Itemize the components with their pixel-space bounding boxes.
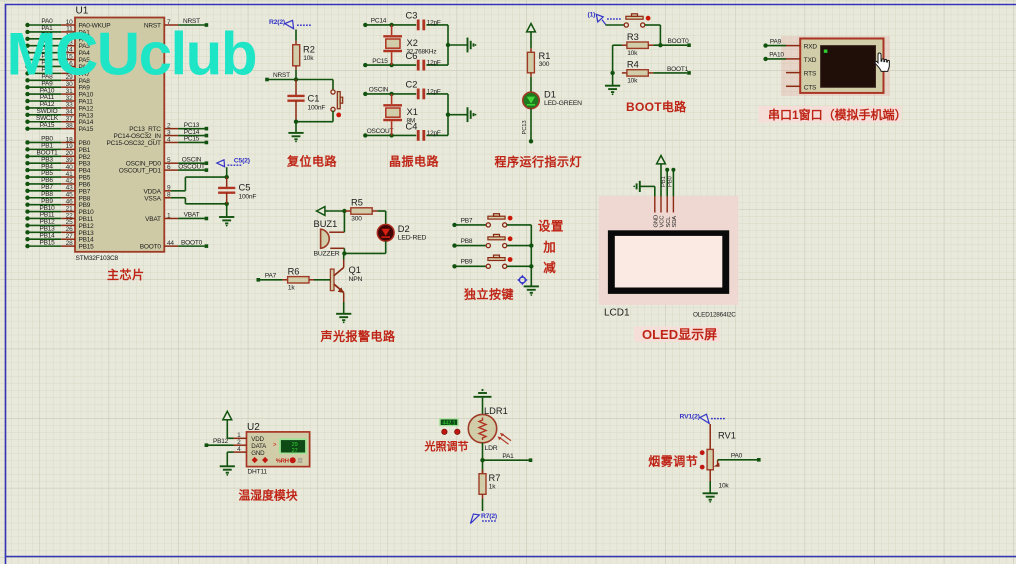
svg-text:12pF: 12pF: [427, 130, 441, 137]
junction OSCIN/crystal: [389, 92, 393, 96]
ground (DHT11): [220, 466, 235, 472]
wire LDR to junction: [482, 443, 484, 460]
svg-text:27: 27: [292, 448, 298, 454]
flag R2(2): [269, 19, 311, 29]
junction C5 top: [225, 175, 229, 179]
svg-text:PB8: PB8: [461, 238, 473, 245]
wire PB6 pin 42 (U1 left): [25, 177, 90, 188]
svg-text:独立按键: 独立按键: [463, 286, 514, 301]
svg-text:NRST: NRST: [273, 72, 290, 79]
ground (keys): [524, 286, 539, 292]
wire BUZ1 top to R5 junction: [343, 211, 345, 232]
wire BUZ1 bottom to junction: [343, 248, 345, 253]
svg-text:减: 减: [543, 260, 556, 275]
DHT11 module U2: [247, 422, 310, 475]
buzzer BUZ1: [314, 219, 345, 258]
wire key PB7 to common: [507, 224, 532, 226]
svg-text:38: 38: [66, 122, 73, 129]
wire R1 to D1: [530, 77, 532, 93]
potentiometer RV1 10k: [700, 431, 736, 490]
wire PA10 to TXD: [763, 52, 800, 61]
wire PC14: [363, 18, 448, 27]
svg-text:PB12: PB12: [213, 438, 229, 445]
svg-text:VBAT: VBAT: [145, 216, 161, 223]
resistor R7 1k: [479, 460, 500, 499]
power (DHT11): [223, 411, 232, 419]
svg-text:OSCOUT_PD1: OSCOUT_PD1: [119, 168, 162, 175]
wire RV1 bottom to ground: [709, 470, 711, 494]
wire PA10 pin 31 (U1 left): [25, 87, 93, 98]
boot button: [624, 14, 650, 27]
svg-text:光照调节: 光照调节: [424, 439, 469, 453]
svg-text:温湿度模块: 温湿度模块: [239, 488, 298, 502]
svg-text:PB9: PB9: [461, 259, 473, 266]
wire PA0 pin 10 (U1 left): [25, 18, 110, 29]
svg-text:PA10: PA10: [769, 52, 784, 59]
svg-text:44: 44: [167, 240, 174, 247]
node BOOT0: [653, 38, 691, 47]
svg-text:LED-RED: LED-RED: [398, 234, 427, 241]
wire PA12 pin 33 (U1 left): [25, 101, 93, 112]
junction keys PB9: [529, 264, 533, 268]
svg-text:加: 加: [542, 239, 556, 254]
svg-text:BOOT0: BOOT0: [181, 239, 203, 246]
svg-text:PC14: PC14: [371, 18, 387, 25]
wire PA9 to RXD: [763, 38, 800, 47]
pin 2 PC13_RTC (U1 right): [129, 122, 208, 133]
svg-text:12pF: 12pF: [427, 60, 441, 67]
resistor R5 300: [345, 198, 377, 223]
wire crystal right side: [447, 94, 449, 135]
wire OSCIN: [363, 87, 448, 96]
svg-text:PB0: PB0: [667, 176, 673, 187]
svg-text:R2(2): R2(2): [269, 19, 285, 26]
svg-text:PB15: PB15: [79, 244, 95, 251]
pin 9 VDDA (U1 right): [144, 185, 171, 196]
svg-text:PA15: PA15: [40, 122, 55, 129]
wire OSCOUT: [363, 128, 448, 137]
svg-text:PA1: PA1: [502, 453, 514, 460]
wire OLED SDA to PB0: [667, 168, 675, 197]
resistor R6 1k: [282, 266, 314, 291]
svg-text:R3: R3: [627, 32, 639, 42]
virtual terminal (serial window): [800, 39, 883, 93]
wire PB12 pin 25 (U1 left): [25, 219, 94, 230]
wire PB1 pin 19 (U1 left): [25, 143, 90, 154]
resistor R1 300: [527, 48, 550, 77]
node PB7 (keys): [452, 217, 486, 227]
LED D1 LED-GREEN: [523, 89, 582, 108]
svg-text:C6: C6: [406, 51, 418, 61]
wire BOOT1 pin 20 (U1 left): [25, 149, 90, 160]
svg-text:>: >: [273, 443, 277, 449]
junction LDR/R7/PA1: [480, 458, 484, 462]
svg-text:LDR: LDR: [485, 445, 498, 452]
label serial window title: [759, 106, 907, 123]
wire PA7 pin 17 (U1 left): [25, 67, 90, 78]
svg-text:10k: 10k: [627, 78, 638, 85]
svg-text:R7(2): R7(2): [481, 513, 497, 520]
svg-text:PB7: PB7: [461, 217, 473, 224]
svg-text:R4: R4: [627, 60, 639, 70]
svg-text:D2: D2: [398, 224, 410, 234]
pin 5 OSCIN_PD0 (U1 right): [126, 156, 208, 167]
OLED module LCD1 OLED12864I2C: [604, 230, 736, 318]
junction R4 left: [610, 71, 614, 75]
wire R5 to D2: [377, 211, 386, 224]
junction C5 bottom: [225, 202, 229, 206]
svg-text:晶振电路: 晶振电路: [389, 154, 440, 169]
svg-text:度: 度: [297, 457, 303, 465]
capacitor C1 100nF: [287, 80, 325, 122]
OLED pin 4 SDA: [672, 196, 678, 227]
node BOOT1: [653, 66, 691, 75]
flag R7(2): [470, 513, 497, 524]
wire NRST to reset button: [296, 80, 333, 90]
svg-text:RV1: RV1: [718, 431, 736, 441]
svg-text:OSCOUT: OSCOUT: [178, 163, 205, 170]
svg-text:BUZZER: BUZZER: [314, 251, 340, 258]
svg-text:GND: GND: [251, 450, 265, 457]
svg-text:C5: C5: [239, 183, 251, 193]
svg-text:BOOT0: BOOT0: [140, 244, 162, 251]
wire PA15 pin 38 (U1 left): [25, 122, 93, 133]
transistor Q1 NPN: [330, 260, 362, 303]
wire PA1 pin 11 (U1 left): [25, 25, 90, 36]
pin 4 PC15-OSC32_OUT (U1 right): [107, 136, 209, 147]
svg-text:6: 6: [167, 164, 171, 171]
junction keys PB8: [529, 243, 533, 247]
wire PA11 pin 32 (U1 left): [25, 94, 93, 105]
svg-text:PC13: PC13: [522, 120, 528, 135]
svg-text:LCD1: LCD1: [604, 308, 630, 319]
svg-text:NPN: NPN: [349, 276, 363, 283]
svg-text:OLED显示屏: OLED显示屏: [642, 327, 717, 342]
ground (crystal right): [448, 107, 476, 122]
wire VSSA to C5 ground: [171, 198, 227, 204]
wire boot button to BOOT0: [645, 25, 661, 45]
svg-text:LDR1: LDR1: [484, 406, 508, 416]
svg-text:PB15: PB15: [39, 239, 55, 246]
svg-text:1: 1: [167, 212, 171, 219]
key button 减: [486, 255, 512, 268]
wire PB8 pin 45 (U1 left): [25, 191, 90, 202]
wire PB13 pin 26 (U1 left): [25, 226, 94, 237]
svg-text:MCUclub: MCUclub: [7, 21, 256, 88]
wire key PB9 to common: [507, 265, 532, 267]
node PC13 (indicator): [529, 139, 533, 143]
wire R2 to NRST junction: [295, 70, 297, 80]
capacitor C4 12pF: [406, 121, 441, 140]
svg-text:R2: R2: [303, 45, 315, 55]
pin 2 DATA / node PB12: [205, 438, 247, 447]
junction PC14/crystal: [389, 23, 393, 27]
svg-text:STM32F103C8: STM32F103C8: [76, 255, 119, 262]
wire flag to RV1: [709, 424, 711, 449]
wire D1 to PC13: [522, 109, 531, 141]
OLED pin 1 GND: [653, 196, 659, 227]
svg-text:C3: C3: [406, 11, 418, 21]
ground (reset): [288, 122, 303, 143]
node PB8 (keys): [452, 238, 486, 248]
wire SWCLK pin 37 (U1 left): [25, 115, 93, 126]
svg-text:U1: U1: [76, 6, 89, 17]
selection halo (terminal): [781, 36, 890, 96]
svg-text:CTS: CTS: [804, 84, 817, 91]
svg-text:程序运行指示灯: 程序运行指示灯: [495, 154, 583, 169]
wire power to R1: [530, 35, 532, 49]
wire PA6 pin 16 (U1 left): [25, 60, 90, 71]
pin 4 GND (U2): [227, 446, 246, 467]
svg-text:4: 4: [167, 136, 171, 143]
svg-text:28: 28: [66, 240, 73, 247]
pin 1 VDD (U2): [234, 432, 247, 439]
svg-text:RTS: RTS: [804, 71, 817, 78]
svg-text:X2: X2: [407, 38, 418, 48]
svg-text:RXD: RXD: [804, 43, 818, 50]
flag (1) boot button: [588, 12, 621, 25]
wire key PB8 to common: [507, 245, 532, 247]
svg-text:SDA: SDA: [672, 216, 678, 228]
ground (boot): [605, 73, 620, 95]
wire PB9 pin 46 (U1 left): [25, 198, 90, 209]
wire PA5 pin 15 (U1 left): [25, 53, 90, 64]
svg-text:复位电路: 复位电路: [286, 154, 338, 169]
power (indicator): [527, 24, 536, 32]
svg-text:R1: R1: [539, 51, 551, 61]
svg-text:OSCIN: OSCIN: [369, 87, 389, 94]
wire PB11 pin 22 (U1 left): [25, 212, 93, 223]
junction crystal ground: [446, 112, 450, 116]
resistor R3 10k: [622, 32, 653, 57]
svg-text:X1: X1: [407, 107, 418, 117]
svg-text:10k: 10k: [719, 482, 730, 489]
wire power to R5: [328, 210, 346, 212]
svg-text:声光报警电路: 声光报警电路: [320, 329, 397, 344]
svg-text:BOOT电路: BOOT电路: [626, 99, 687, 114]
flag RV1(2): [680, 413, 725, 423]
svg-text:OSCOUT: OSCOUT: [367, 128, 394, 135]
svg-text:PB1: PB1: [661, 176, 667, 187]
svg-text:4: 4: [237, 446, 241, 453]
svg-text:VCC: VCC: [660, 215, 666, 228]
svg-text:C2: C2: [406, 80, 418, 90]
junction R3 output: [658, 43, 662, 47]
svg-text:PC15: PC15: [184, 136, 200, 143]
pin 7 NRST (U1 right): [144, 18, 208, 29]
reset button: [331, 90, 343, 117]
svg-text:100nF: 100nF: [239, 194, 257, 201]
ground (C5): [219, 204, 234, 227]
wire power to VDD: [227, 422, 233, 438]
ground (alarm): [336, 314, 351, 320]
key button 加: [486, 234, 512, 247]
wire junction to Q1 collector: [343, 253, 345, 259]
resistor R2 10k: [293, 41, 315, 70]
mouse hand cursor: [875, 53, 889, 71]
ground (LDR top, inverted): [474, 393, 492, 397]
capacitor C2 12pF: [406, 80, 441, 100]
LED D2 LED-RED: [377, 224, 426, 242]
svg-text:串口1窗口（模拟手机端）: 串口1窗口（模拟手机端）: [768, 107, 907, 122]
svg-text:Q1: Q1: [349, 265, 361, 275]
power (OLED VCC): [657, 156, 666, 164]
MCU U1 STM32F103C8 body: [75, 6, 164, 262]
svg-text:10k: 10k: [303, 55, 314, 62]
junction BUZ1/D2/Q1: [342, 251, 346, 255]
svg-text:R7: R7: [489, 473, 501, 483]
OLED pin 3 SCL: [666, 196, 672, 227]
pin 8 VSSA (U1 right): [144, 192, 171, 203]
pin 3 PC14-OSC32_IN (U1 right): [114, 129, 209, 140]
capacitor C5 100nF: [218, 177, 256, 204]
svg-text:R5: R5: [351, 198, 363, 208]
wire R6 to Q1 base: [314, 279, 330, 281]
wire OLED GND: [641, 186, 655, 196]
wire PB7 pin 43 (U1 left): [25, 184, 90, 195]
origin marker (blue): [517, 275, 528, 286]
wire R7 dangling: [482, 499, 484, 511]
wire Q1 emitter to ground: [343, 302, 345, 314]
svg-text:PA0: PA0: [731, 452, 743, 459]
wire flag to boot button: [606, 24, 625, 26]
selection highlight (OLED): [599, 196, 739, 305]
junction C1 bottom: [294, 120, 298, 124]
svg-text:LED-GREEN: LED-GREEN: [544, 100, 582, 107]
power (alarm): [317, 207, 325, 216]
wire PA9 pin 30 (U1 left): [25, 80, 90, 91]
crystal X2 32.768KHz: [383, 25, 436, 65]
svg-text:VBAT: VBAT: [184, 212, 200, 219]
pin CTS stub: [786, 85, 800, 87]
ground (RV1): [703, 493, 718, 499]
junction crystal ground: [446, 43, 450, 47]
key button 设置: [486, 214, 512, 227]
junction PC15/crystal: [389, 63, 393, 67]
capacitor C3 12pF: [406, 11, 441, 31]
pin RTS stub: [786, 72, 800, 74]
ground (crystal right): [448, 38, 476, 53]
svg-text:12pF: 12pF: [427, 88, 441, 95]
junction NRST/R2/C1: [294, 77, 298, 81]
label OLED title: [634, 327, 720, 343]
wire PA2 pin 12 (U1 left): [25, 32, 90, 43]
wire PC15: [363, 58, 448, 67]
pin 6 OSCOUT_PD1 (U1 right): [119, 163, 208, 174]
svg-text:(1): (1): [588, 12, 596, 19]
resistor R4 10k: [622, 60, 653, 85]
node NRST (reset): [265, 72, 296, 81]
wire R2 top: [295, 30, 297, 41]
OLED pin 2 VCC: [660, 196, 666, 227]
svg-text:PC15: PC15: [372, 58, 388, 65]
node PA0 (RV1 wiper): [718, 452, 761, 461]
svg-text:C1: C1: [308, 94, 320, 104]
ground (OLED): [637, 181, 640, 192]
svg-text:12pF: 12pF: [427, 19, 441, 26]
svg-text:DHT11: DHT11: [248, 468, 268, 475]
wire R3 left: [613, 45, 622, 73]
node PB9 (keys): [452, 259, 486, 269]
wire C5(2) dangling: [226, 167, 228, 177]
svg-text:GND: GND: [653, 215, 659, 228]
svg-text:BOOT0: BOOT0: [667, 38, 689, 45]
svg-text:烟雾调节: 烟雾调节: [648, 453, 698, 468]
wire PB15 pin 28 (U1 left): [25, 239, 94, 250]
svg-text:R6: R6: [288, 266, 300, 276]
svg-text:BOOT1: BOOT1: [667, 66, 689, 73]
wire ground to LDR1: [482, 397, 484, 415]
LDR value display: [439, 418, 459, 426]
node PA7 (alarm): [257, 273, 283, 282]
wire PA8 pin 29 (U1 left): [25, 73, 90, 84]
LDR1: [468, 406, 511, 452]
capacitor C6 12pF: [406, 51, 441, 70]
wire PB3 pin 39 (U1 left): [25, 156, 90, 167]
svg-text:8: 8: [167, 192, 171, 199]
svg-text:VSSA: VSSA: [144, 195, 161, 202]
LDR adjust buttons: [442, 429, 460, 434]
wire VDDA to C5: [171, 177, 227, 191]
wire PB4 pin 40 (U1 left): [25, 163, 90, 174]
svg-text:300: 300: [539, 61, 550, 68]
node PA1: [483, 453, 533, 462]
junction R5/BUZ1: [342, 209, 346, 213]
wire PA3 pin 13 (U1 left): [25, 39, 90, 50]
wire OLED SCL to PB1: [661, 168, 669, 197]
svg-text:OLED12864I2C: OLED12864I2C: [693, 312, 736, 319]
wire D2 to junction: [344, 241, 385, 253]
svg-text:1k: 1k: [288, 284, 295, 291]
svg-text:BUZ1: BUZ1: [314, 219, 338, 229]
wire OLED VCC: [660, 167, 662, 197]
svg-text:主芯片: 主芯片: [107, 267, 145, 282]
svg-text:U2: U2: [247, 422, 260, 433]
svg-text:%RH: %RH: [276, 458, 289, 464]
wire PA4 pin 14 (U1 left): [25, 46, 90, 57]
wire PB5 pin 41 (U1 left): [25, 170, 90, 181]
wire SWDIO pin 34 (U1 left): [25, 108, 93, 119]
svg-text:442.1: 442.1: [442, 421, 455, 427]
wire keys common: [530, 225, 532, 287]
wire PB14 pin 27 (U1 left): [25, 232, 94, 243]
svg-text:PA7: PA7: [265, 273, 277, 280]
wire PB10 pin 21 (U1 left): [25, 205, 94, 216]
svg-text:300: 300: [351, 215, 362, 222]
svg-text:TXD: TXD: [804, 57, 817, 64]
svg-text:D1: D1: [544, 89, 556, 99]
wire crystal right side: [447, 25, 449, 65]
svg-text:PA15: PA15: [79, 126, 94, 133]
svg-text:10k: 10k: [627, 50, 638, 57]
pin 44 BOOT0 (U1 right): [140, 239, 208, 250]
svg-text:1k: 1k: [489, 484, 496, 491]
svg-text:PA9: PA9: [770, 38, 782, 45]
svg-text:设置: 设置: [538, 218, 564, 233]
pin 1 VBAT (U1 right): [145, 212, 208, 223]
flag C5(2): [217, 157, 250, 166]
wire reset button bottom: [296, 111, 333, 122]
svg-text:C5(2): C5(2): [234, 157, 250, 164]
junction OSCOUT/crystal: [389, 133, 393, 137]
svg-text:RV1(2): RV1(2): [680, 413, 700, 420]
svg-text:100nF: 100nF: [308, 105, 326, 112]
svg-text:PC15-OSC32_OUT: PC15-OSC32_OUT: [107, 140, 162, 147]
svg-text:C4: C4: [406, 121, 418, 131]
crystal X1 8M: [383, 94, 418, 135]
wire PB0 pin 18 (U1 left): [25, 136, 90, 147]
svg-text:SCL: SCL: [666, 216, 672, 228]
